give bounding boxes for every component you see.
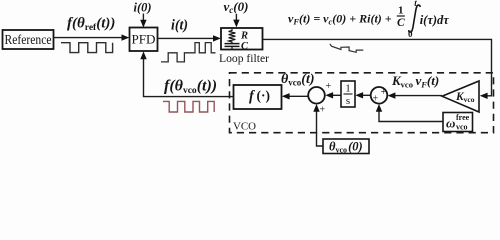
equation v_F(t)=v_c(0)+Ri(t)+(1/C) integral: [288, 0, 449, 39]
svg-text:+: +: [373, 94, 379, 105]
waveform i(t) tri-level: [161, 43, 216, 62]
wire loop filter to K_vco input: [263, 39, 492, 99]
block theta_vco(0): [323, 139, 369, 155]
svg-text:KvcovF(t): KvcovF(t): [391, 73, 439, 90]
svg-text:+: +: [320, 105, 326, 116]
svg-text:VCO: VCO: [233, 122, 256, 133]
wire i(0) into PFD: [140, 14, 146, 28]
wire omega_free to summer S2: [376, 104, 443, 122]
wire Reference to PFD: [54, 34, 130, 40]
capacitor C: [225, 41, 250, 52]
svg-text:0: 0: [408, 29, 413, 39]
svg-text:vc(0): vc(0): [224, 0, 249, 15]
svg-text:i(t): i(t): [171, 18, 188, 34]
svg-text:+: +: [326, 81, 332, 92]
svg-text:i(τ)dτ: i(τ)dτ: [420, 13, 450, 27]
wire PFD to loop filter: [158, 35, 221, 41]
summing junction S2: [371, 87, 388, 105]
svg-text:+: +: [381, 87, 387, 98]
svg-text:Reference: Reference: [5, 32, 52, 47]
block loop filter: [221, 28, 263, 50]
VCO dashed box: [230, 73, 494, 133]
svg-text:i(0): i(0): [134, 0, 152, 15]
svg-text:s: s: [346, 95, 350, 107]
svg-text:(·): (·): [257, 88, 271, 103]
waveform v_F(t) sketch: [330, 44, 363, 52]
svg-text:1: 1: [345, 83, 351, 95]
svg-text:free: free: [456, 113, 470, 122]
block integrator 1/s: [341, 81, 355, 107]
svg-text:Loop filter: Loop filter: [219, 51, 269, 65]
block PFD U1: [130, 28, 158, 52]
waveform VCO square wave (red): [163, 101, 214, 112]
gain triangle K_vco: [442, 81, 479, 112]
wire K_vco output to summer S2: [388, 92, 442, 98]
svg-text:C: C: [397, 17, 405, 29]
wire theta_vco(0) to summer S1: [313, 104, 323, 146]
svg-text:1: 1: [398, 5, 404, 17]
summing junction S1: [308, 81, 331, 116]
wire v_c(0) into loop filter: [233, 14, 239, 27]
svg-text:ω: ω: [446, 116, 455, 131]
block omega_vco free: [443, 113, 473, 132]
svg-text:vco: vco: [456, 123, 468, 132]
waveform reference square wave: [61, 43, 113, 53]
wire summer S1 to f(.): [282, 93, 308, 99]
wire f(.) output to PFD bottom: [140, 51, 233, 96]
wire summer S2 to 1/s: [355, 92, 370, 98]
wire 1/s to summer S1: [325, 92, 341, 98]
svg-text:PFD: PFD: [132, 32, 156, 47]
svg-text:vF(t) = vc(0) + Ri(t) +: vF(t) = vc(0) + Ri(t) +: [288, 12, 392, 27]
block Reference: [3, 30, 54, 49]
resistor R: [229, 29, 248, 44]
block f(.): [234, 85, 282, 109]
